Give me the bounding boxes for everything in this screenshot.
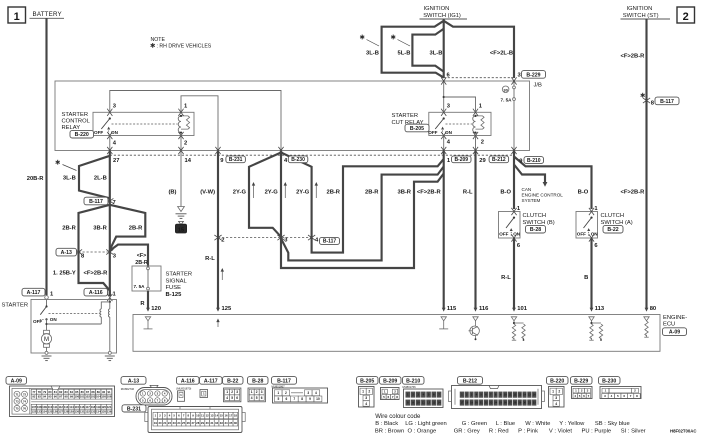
svg-text:119: 119 (96, 405, 101, 409)
svg-text:17: 17 (229, 414, 233, 418)
inline connector B-117 pin 3 (277, 235, 284, 240)
svg-text:30: 30 (503, 87, 508, 92)
svg-text:2Y-G: 2Y-G (265, 189, 279, 195)
wire B-O branch to clutch switch A (514, 157, 592, 210)
svg-text:STARTER: STARTER (2, 303, 29, 309)
svg-text:B-125: B-125 (166, 292, 183, 298)
relay B-205 switch (443, 117, 445, 119)
svg-text:122: 122 (32, 410, 37, 414)
J/B internal wire relay B-205 pin4 down (443, 136, 445, 151)
wire 1.25B-Y to starter A-116 (79, 252, 110, 296)
connector B-28 (248, 377, 269, 385)
svg-text:34: 34 (224, 421, 228, 425)
svg-text:11: 11 (509, 393, 512, 397)
svg-text:27: 27 (113, 158, 119, 164)
starter control relay B-220 box (93, 112, 194, 135)
inline connector B-117 pin 2 (214, 235, 221, 240)
svg-text:SWITCH (IG1): SWITCH (IG1) (423, 13, 461, 19)
wire B-O pin 9 B-210 to clutch switch B (513, 151, 515, 210)
J/B internal wire relay B-205 pin2 down (475, 136, 477, 151)
svg-text:2: 2 (683, 11, 689, 23)
svg-text:SB : Sky blue: SB : Sky blue (595, 421, 630, 427)
connector A-09 (engine ECU) (6, 377, 27, 385)
asterisk pointer to 5L-B (392, 35, 394, 40)
ECU internal transistor under pin 116 (473, 317, 478, 321)
svg-text:25: 25 (182, 421, 186, 425)
svg-text:98: 98 (65, 395, 69, 399)
svg-text:B-117: B-117 (277, 378, 291, 384)
branch arrow to CAN engine control system (514, 165, 545, 183)
svg-text:<F>2L-B: <F>2L-B (490, 50, 513, 56)
svg-text:5: 5 (278, 397, 280, 401)
svg-text:10: 10 (417, 401, 421, 405)
svg-text:18: 18 (465, 401, 469, 405)
svg-text:104: 104 (96, 395, 101, 399)
svg-text:B-117: B-117 (89, 199, 103, 205)
svg-text:(B): (B) (168, 189, 176, 195)
svg-text:111: 111 (53, 405, 58, 409)
svg-text:2B-R: 2B-R (129, 225, 143, 231)
svg-text:31: 31 (528, 401, 532, 405)
J/B internal wire relay B-220 pin3 to B-230 pin4 (110, 91, 281, 151)
svg-text:ENGINE-: ENGINE- (663, 315, 687, 321)
starter terminal A-116 pin 1 (84, 288, 108, 296)
starter motor M (44, 330, 50, 333)
svg-text:106: 106 (107, 395, 112, 399)
wire B clutch switch A to ECU pin 113 (590, 238, 592, 308)
svg-text:STARTER: STARTER (392, 113, 419, 119)
ECU internal resistors under pin 101 (511, 317, 516, 321)
ECU internal resistor under pin 80 (644, 317, 649, 321)
svg-text:B-230: B-230 (291, 157, 305, 163)
svg-text:76: 76 (23, 407, 27, 411)
wire 2L-B to J/B fuse (B-229) (444, 21, 514, 78)
svg-text:11: 11 (422, 401, 425, 405)
connector B-117 (272, 377, 297, 385)
harness branch 3L-B (RH drive) (382, 21, 444, 78)
wire (V-W)/R-L pin 9 B-231 to ECU pin 125 (217, 151, 219, 309)
starter cut relay B-205 box (429, 112, 491, 135)
wire 2Y-G branch (left) (249, 153, 281, 237)
svg-text:75: 75 (15, 407, 19, 411)
svg-text:3: 3 (261, 390, 263, 394)
svg-text:18: 18 (234, 414, 238, 418)
svg-text:84: 84 (70, 390, 74, 394)
svg-text:Wire colour code: Wire colour code (375, 414, 421, 420)
connector A-116 (177, 377, 200, 385)
svg-text:A-13: A-13 (128, 378, 139, 384)
svg-text:30: 30 (206, 421, 210, 425)
svg-text:118: 118 (91, 405, 96, 409)
svg-text:87: 87 (86, 390, 90, 394)
harness branch flag 3L-B (79, 156, 110, 199)
svg-text:NOTE: NOTE (151, 37, 166, 43)
starter switch dashed link (49, 313, 100, 315)
svg-text:B-229: B-229 (574, 378, 588, 384)
svg-text:121: 121 (107, 405, 112, 409)
svg-text:3L-B: 3L-B (63, 175, 76, 181)
svg-text:2: 2 (184, 140, 187, 146)
svg-text:6: 6 (285, 397, 287, 401)
svg-text:B-210: B-210 (527, 158, 541, 164)
ECU internal stub under pin 115 (441, 317, 446, 321)
svg-text:Y : Yellow: Y : Yellow (559, 421, 585, 427)
svg-text:117: 117 (85, 405, 90, 409)
svg-text:115: 115 (447, 306, 457, 312)
svg-text:35: 35 (229, 421, 233, 425)
svg-text:ON: ON (513, 231, 521, 236)
svg-text:126: 126 (53, 410, 58, 414)
ECU internal resistors under pin 113 (589, 317, 594, 321)
svg-text:4: 4 (251, 396, 253, 400)
svg-text:33: 33 (220, 421, 224, 425)
svg-text:25: 25 (499, 401, 503, 405)
svg-text:74: 74 (23, 400, 27, 404)
svg-text:22: 22 (484, 401, 488, 405)
svg-text:72: 72 (23, 392, 27, 396)
svg-text:IGNITION: IGNITION (424, 6, 450, 12)
svg-text:24: 24 (177, 421, 181, 425)
svg-text:STARTER: STARTER (62, 112, 89, 118)
svg-text:81: 81 (54, 390, 58, 394)
svg-text:1: 1 (226, 390, 228, 394)
svg-text:R-L: R-L (463, 189, 473, 195)
svg-text:6: 6 (236, 396, 238, 400)
wire R-L clutch switch B to ECU pin 101 (513, 238, 515, 308)
svg-text:10: 10 (316, 397, 320, 401)
svg-text:SI : Silver: SI : Silver (621, 428, 646, 434)
svg-text:27: 27 (191, 421, 195, 425)
ground wire (B) from pin 14 (180, 151, 182, 207)
svg-text:13: 13 (432, 401, 436, 405)
svg-text:4: 4 (555, 402, 557, 406)
svg-text:2B-R: 2B-R (135, 260, 148, 266)
svg-text:129: 129 (69, 410, 74, 414)
svg-text:29: 29 (479, 158, 486, 164)
svg-text:B-230: B-230 (602, 378, 616, 384)
svg-text:B-231: B-231 (229, 157, 243, 163)
svg-text:SYSTEM: SYSTEM (522, 198, 541, 203)
page key box 2 (ignition ST) (677, 7, 695, 23)
svg-text:B-205: B-205 (410, 126, 424, 132)
svg-text:132: 132 (85, 410, 90, 414)
svg-text:ECU: ECU (663, 322, 675, 328)
svg-text:2: 2 (221, 238, 224, 244)
svg-text:99: 99 (70, 395, 74, 399)
svg-text:31: 31 (210, 421, 214, 425)
svg-text:105: 105 (101, 395, 106, 399)
relay B-220 switch (109, 117, 111, 119)
svg-text:2L-B: 2L-B (94, 175, 107, 181)
svg-text:101: 101 (517, 306, 527, 312)
svg-text:20B-R: 20B-R (27, 176, 45, 182)
svg-text:23: 23 (489, 401, 493, 405)
svg-text:6: 6 (261, 396, 263, 400)
svg-text:B-22: B-22 (227, 378, 238, 384)
direction arrows beside 2Y-G wires (253, 183, 255, 198)
svg-text:4: 4 (226, 396, 228, 400)
svg-text:110: 110 (48, 405, 53, 409)
J/B internal wire relay B-220 pin1 to B-231 pin9 (181, 96, 218, 151)
svg-text:M: M (44, 337, 49, 343)
wire 2L-B pin27 to junction B-117 pin7 (109, 151, 111, 253)
svg-text:73: 73 (15, 400, 19, 404)
svg-text:2: 2 (256, 390, 258, 394)
svg-text:A-13: A-13 (61, 250, 72, 256)
svg-text:8: 8 (301, 397, 303, 401)
svg-text:B-231: B-231 (127, 406, 141, 412)
svg-text:103: 103 (91, 395, 96, 399)
svg-text:26: 26 (504, 401, 508, 405)
svg-text:114: 114 (69, 405, 74, 409)
svg-text:2B-R: 2B-R (62, 225, 76, 231)
page key box 1 (battery feed) (8, 7, 26, 23)
svg-text:108: 108 (37, 405, 42, 409)
svg-text:BATTERY: BATTERY (33, 11, 62, 18)
svg-text:MU802746: MU802746 (121, 387, 135, 391)
svg-text:82: 82 (59, 390, 63, 394)
asterisk pointer to 3L-B (361, 35, 363, 40)
svg-text:135: 135 (101, 410, 106, 414)
connector B-229 (571, 377, 593, 385)
svg-text:1. 25B-Y: 1. 25B-Y (53, 270, 76, 276)
svg-text:V : Violet: V : Violet (549, 428, 572, 434)
svg-text:3B-R: 3B-R (397, 189, 411, 195)
svg-text:28: 28 (513, 401, 517, 405)
svg-text:14: 14 (185, 158, 192, 164)
svg-text:SWITCH (ST): SWITCH (ST) (623, 13, 659, 19)
svg-text:FUSE: FUSE (166, 285, 182, 291)
svg-text:3B-R: 3B-R (93, 225, 107, 231)
harness split to 2B-R / 3B-R / 2B-R (79, 205, 110, 252)
svg-text:29: 29 (201, 421, 205, 425)
svg-text:80: 80 (650, 306, 656, 312)
svg-text:B-220: B-220 (75, 132, 89, 138)
J/B boundary crossing marks bottom (107, 147, 112, 154)
svg-text:A-117: A-117 (204, 378, 218, 384)
svg-text:B : Black: B : Black (375, 421, 398, 427)
connector B-22 (223, 377, 244, 385)
svg-text:26: 26 (187, 421, 191, 425)
svg-text:15: 15 (178, 227, 184, 233)
svg-text:15: 15 (528, 393, 532, 397)
svg-text:H8F02T00AC: H8F02T00AC (670, 428, 697, 433)
svg-text:1: 1 (552, 390, 554, 394)
svg-text:113: 113 (64, 405, 69, 409)
connector B-209 (380, 377, 402, 385)
ground symbol for pin 14 wire (178, 207, 185, 212)
ECU internal stub under pin 120 (145, 317, 150, 321)
wire R fuse to ECU pin 120 (147, 291, 149, 308)
svg-text:101: 101 (80, 395, 85, 399)
svg-text:11: 11 (201, 414, 204, 418)
svg-text:<F>2B-R: <F>2B-R (83, 270, 108, 276)
svg-text:O : Orange: O : Orange (408, 428, 437, 434)
svg-text:7: 7 (293, 397, 295, 401)
svg-text:95: 95 (48, 395, 52, 399)
svg-text:29: 29 (518, 401, 522, 405)
svg-text:ENGINE CONTROL: ENGINE CONTROL (522, 193, 564, 198)
svg-text:GR : Grey: GR : Grey (454, 428, 480, 434)
relay B-205 coil (473, 116, 476, 133)
svg-text:CONTROL: CONTROL (62, 119, 91, 125)
connector B-205 (357, 377, 379, 385)
wire <F>2B-R from ignition switch ST to ECU pin 80 (645, 19, 647, 308)
wire 3B-R junction B-117 pin3 to B-209 node (281, 174, 444, 269)
junction block J/B box (55, 81, 530, 151)
svg-text:131: 131 (80, 410, 85, 414)
svg-text:24: 24 (494, 401, 498, 405)
svg-text:A-09: A-09 (669, 329, 680, 335)
svg-text:133: 133 (91, 410, 96, 414)
svg-text:12: 12 (513, 393, 517, 397)
ground (starter solenoid) (105, 355, 115, 357)
ground (starter motor) (42, 355, 52, 357)
svg-text:L : Blue: L : Blue (496, 421, 515, 427)
svg-text:(V-W): (V-W) (200, 189, 215, 195)
svg-text:A-116: A-116 (181, 378, 195, 384)
svg-text:B-22: B-22 (607, 227, 618, 233)
svg-text:<F>: <F> (137, 253, 147, 259)
svg-text:P : Pink: P : Pink (518, 428, 538, 434)
svg-text:27: 27 (509, 401, 513, 405)
svg-text:10: 10 (196, 414, 200, 418)
wire 2B-R junction B-117 pin4 to B-209 node (312, 159, 444, 253)
wire <F>2B-R branch to starter signal fuse (110, 245, 148, 267)
svg-text:120: 120 (101, 405, 106, 409)
engine ECU box A-09 (133, 315, 660, 352)
svg-text:10: 10 (504, 393, 508, 397)
relay B-220 pin marks and numbers (107, 109, 112, 116)
svg-text:97: 97 (59, 395, 63, 399)
ECU internal arrow under pin 125 (217, 320, 219, 328)
svg-text:1: 1 (251, 390, 253, 394)
svg-text:112: 112 (58, 405, 63, 409)
inline connector B-117 pin 8 on ST wire (643, 98, 650, 103)
svg-text:1: 1 (277, 391, 279, 395)
svg-text:85: 85 (75, 390, 79, 394)
svg-text:3L-B: 3L-B (366, 50, 379, 56)
svg-text:136: 136 (107, 410, 112, 414)
direction arrow beside R-L wire (221, 269, 223, 280)
svg-text:30: 30 (523, 401, 527, 405)
svg-text:A-116: A-116 (89, 290, 103, 296)
svg-text:2: 2 (285, 391, 287, 395)
svg-text:B-O: B-O (500, 189, 511, 195)
svg-text:7. 5A: 7. 5A (501, 97, 513, 102)
svg-text:3: 3 (236, 390, 238, 394)
starter terminal A-117 pin 1 (22, 288, 45, 296)
svg-text:B-28: B-28 (252, 378, 263, 384)
svg-text:80: 80 (48, 390, 52, 394)
svg-text:B-212: B-212 (492, 157, 506, 163)
svg-text:(MU801870): (MU801870) (176, 387, 191, 391)
wire 3L-B from ignition switch IG1 (443, 19, 445, 78)
svg-text:94: 94 (43, 395, 47, 399)
svg-text:<F>2B-R: <F>2B-R (621, 53, 646, 59)
starter magnetic switch contact (45, 305, 47, 307)
svg-text:B-O: B-O (578, 189, 589, 195)
svg-text:2: 2 (481, 140, 484, 146)
svg-text:83: 83 (65, 390, 69, 394)
svg-text:R : Red: R : Red (489, 428, 509, 434)
svg-text:4: 4 (315, 391, 317, 395)
svg-text:9: 9 (309, 397, 311, 401)
svg-text:LG : Light green: LG : Light green (405, 421, 447, 427)
svg-text:128: 128 (64, 410, 69, 414)
svg-text:OFF: OFF (94, 130, 103, 135)
svg-text:1: 1 (14, 11, 20, 23)
connector B-231 (122, 405, 146, 412)
svg-text:MU801766: MU801766 (403, 385, 417, 389)
svg-text:125: 125 (48, 410, 53, 414)
svg-text:B-209: B-209 (454, 157, 468, 163)
inline connector B-117 pin 7 (106, 198, 113, 203)
inline connector B-117 pin 4 (308, 235, 315, 240)
svg-text:92: 92 (32, 395, 36, 399)
svg-text:109: 109 (42, 405, 47, 409)
wire <F>2B-R junction 3 to starter A-116 (109, 252, 111, 296)
wire 2B-R junction B-117 pin3 to B-209 node (281, 167, 444, 261)
wire R-L pin 29 B-212 to ECU pin 116 (474, 151, 476, 309)
svg-text:B-212: B-212 (463, 378, 477, 384)
svg-text:ON: ON (591, 231, 599, 236)
svg-text:15: 15 (220, 414, 224, 418)
svg-text:2Y-G: 2Y-G (233, 189, 247, 195)
svg-text:116: 116 (80, 405, 85, 409)
dashed connector line below J/B (110, 154, 514, 156)
svg-text:W : White: W : White (525, 421, 550, 427)
svg-text:R-L: R-L (501, 275, 511, 281)
svg-text:12: 12 (206, 414, 210, 418)
svg-text:2: 2 (231, 390, 233, 394)
dashed connector line pins 6 / 3 (444, 77, 514, 79)
connector A-13 (121, 377, 146, 385)
svg-text:17: 17 (460, 401, 464, 405)
svg-text:OFF: OFF (428, 130, 437, 135)
svg-text:<F>2B-R: <F>2B-R (417, 189, 442, 195)
svg-text:19: 19 (154, 421, 158, 425)
svg-text:A-09: A-09 (11, 378, 22, 384)
svg-text:12: 12 (427, 401, 431, 405)
svg-text:32: 32 (533, 401, 537, 405)
svg-text:PU : Purple: PU : Purple (582, 428, 612, 434)
svg-text:36: 36 (234, 421, 238, 425)
svg-text:123: 123 (37, 410, 42, 414)
svg-text:OFF: OFF (499, 231, 508, 236)
svg-text:91: 91 (108, 390, 112, 394)
svg-text:B: B (584, 275, 588, 281)
relay B-205 pin marks and numbers (441, 109, 446, 116)
svg-text:<F>2B-R: <F>2B-R (621, 189, 646, 195)
svg-text:13: 13 (210, 414, 214, 418)
starter solenoid coils (109, 301, 111, 303)
dashed connector line B-117 pins 2/3/4 (218, 237, 312, 239)
svg-text:127: 127 (58, 410, 63, 414)
svg-text:96: 96 (54, 395, 58, 399)
wire <F>2B-R pin 1 B-209 to ECU pin 115 (443, 151, 445, 309)
svg-text:100: 100 (75, 395, 80, 399)
svg-text:CAN: CAN (522, 187, 532, 192)
svg-text:B-117: B-117 (323, 239, 337, 245)
svg-text:28: 28 (196, 421, 200, 425)
svg-text:2: 2 (558, 390, 560, 394)
svg-text:3L-B: 3L-B (430, 50, 443, 56)
svg-text:J/B: J/B (534, 83, 543, 89)
svg-text:78: 78 (38, 390, 42, 394)
svg-text:3: 3 (365, 396, 367, 400)
svg-text:93: 93 (38, 395, 42, 399)
